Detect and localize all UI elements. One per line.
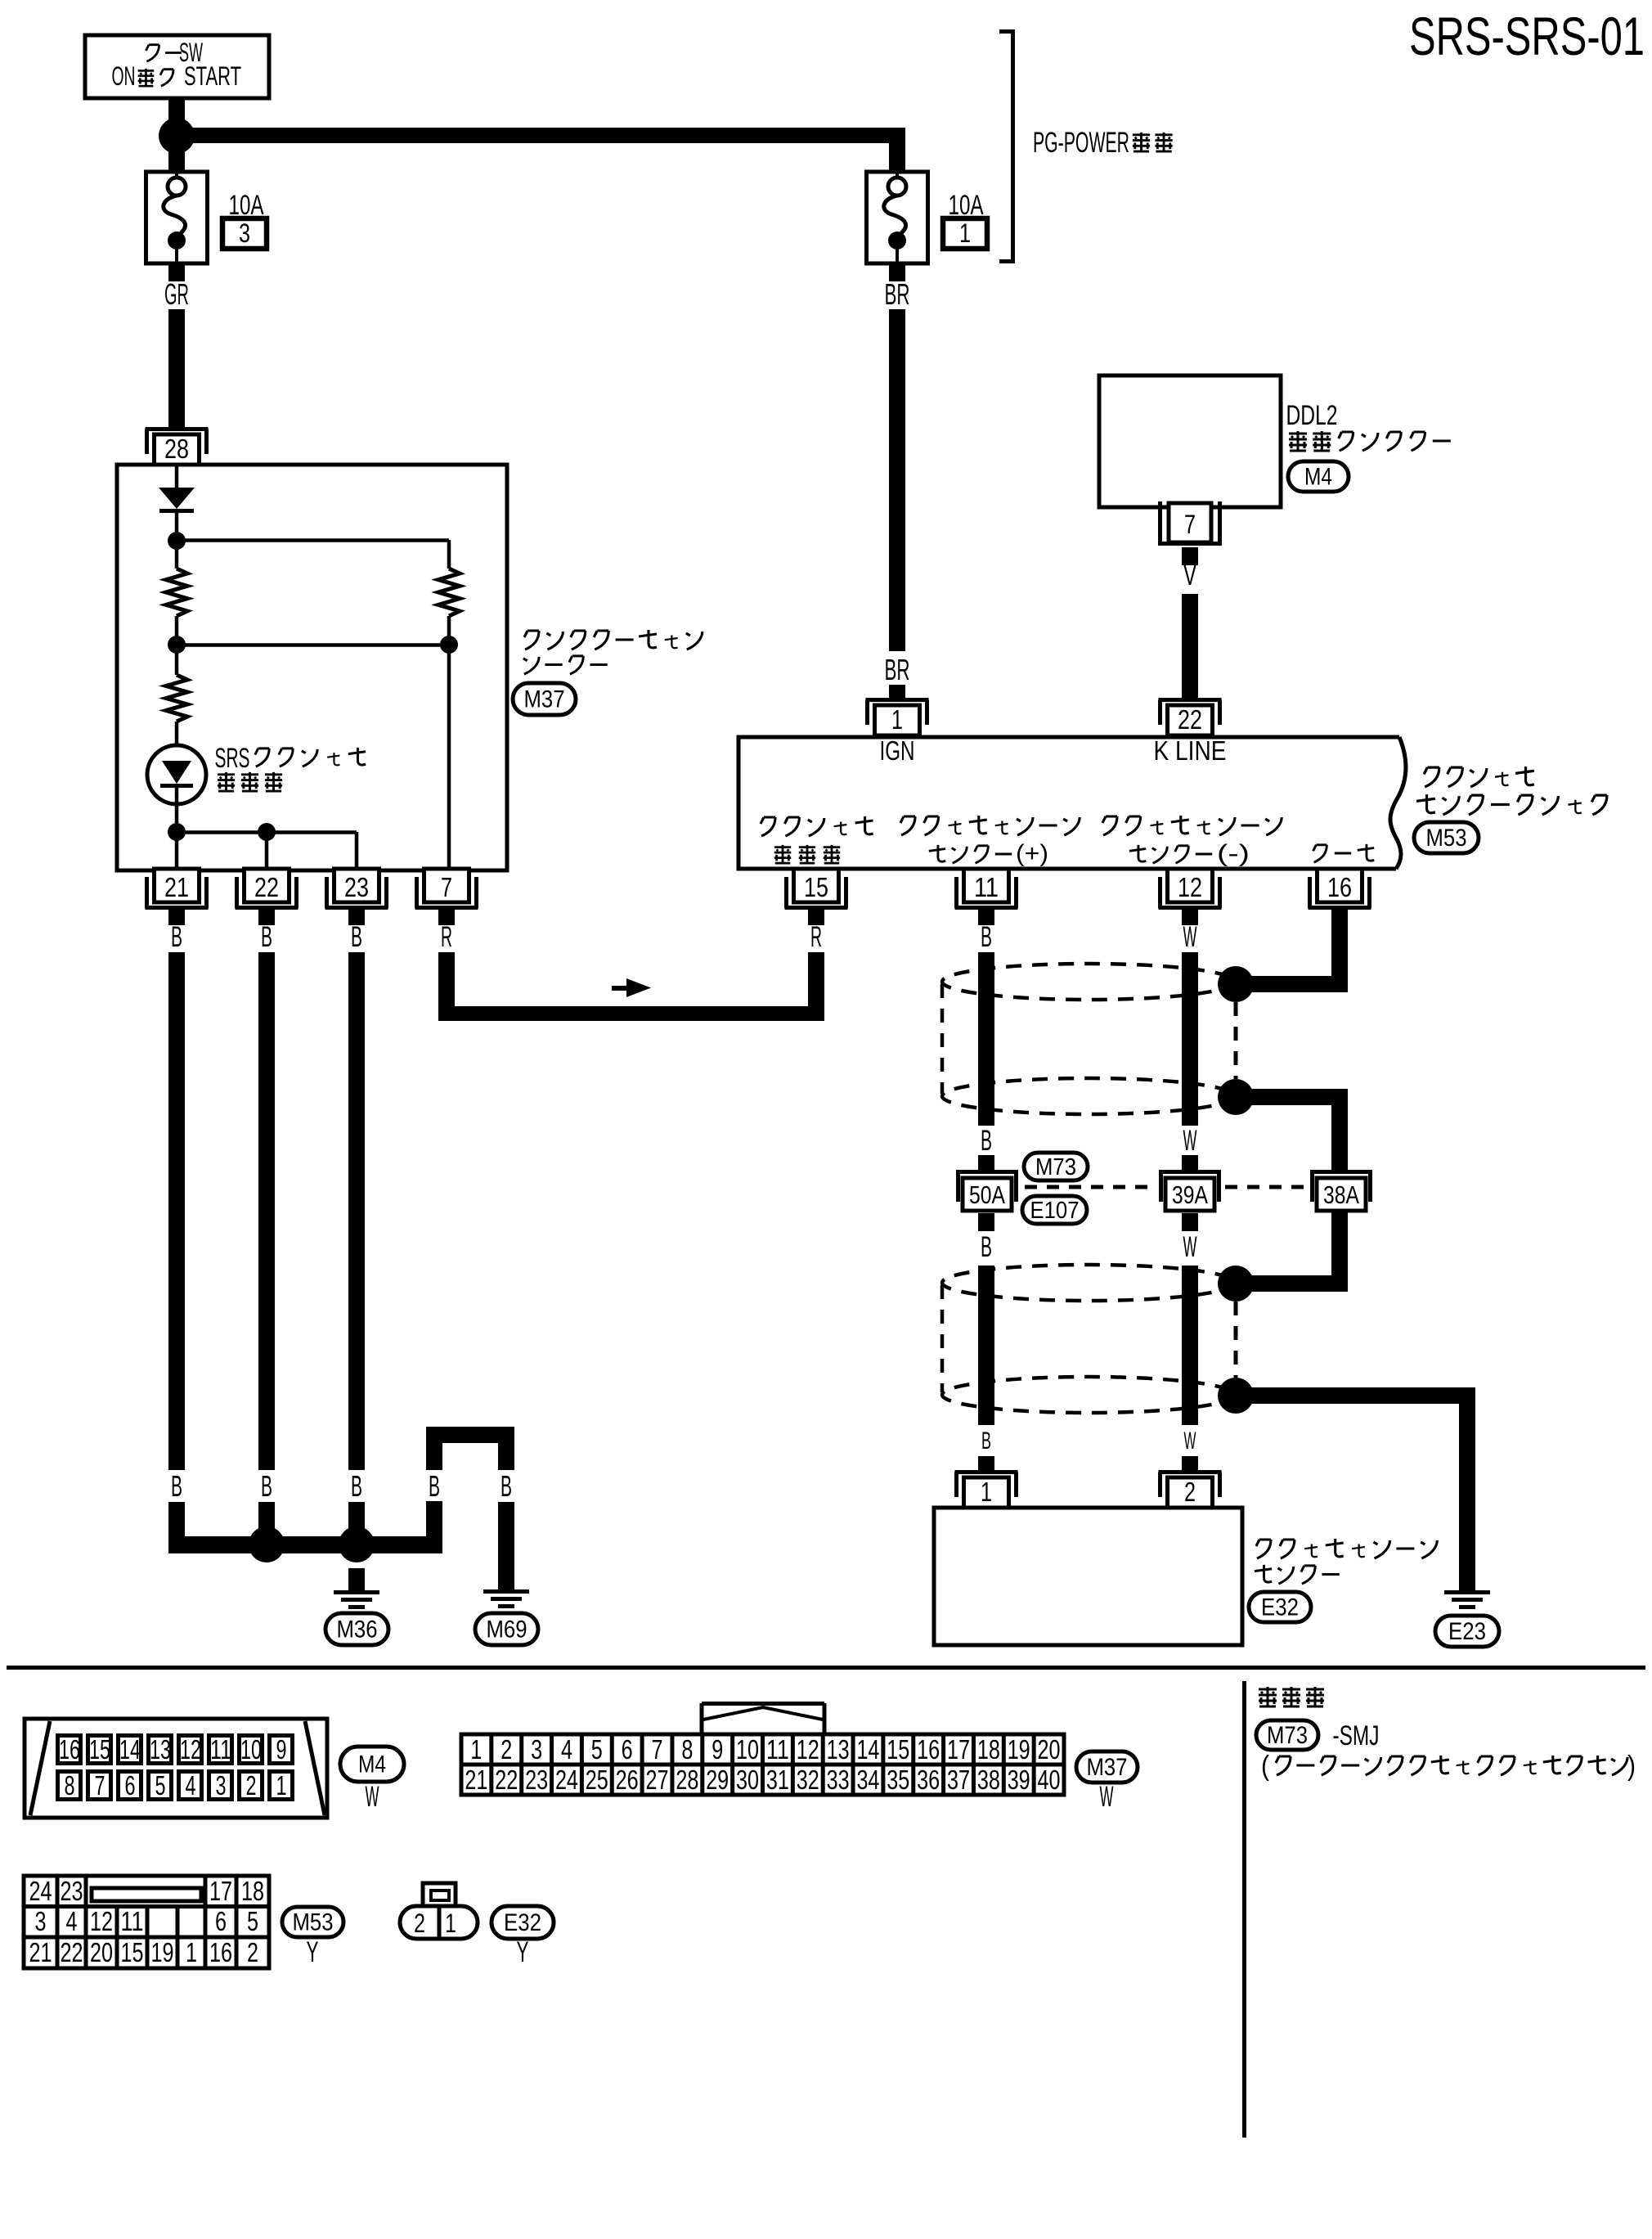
svg-text:26: 26 bbox=[616, 1765, 639, 1795]
svg-text:W: W bbox=[1183, 921, 1197, 953]
connector pin 15 below sensor unit bbox=[794, 869, 839, 902]
svg-text:(: ( bbox=[1261, 1751, 1270, 1782]
svg-text:M53: M53 bbox=[1426, 825, 1467, 852]
svg-text:11: 11 bbox=[121, 1906, 144, 1936]
svg-text:14: 14 bbox=[856, 1734, 879, 1765]
svg-text:19: 19 bbox=[151, 1937, 174, 1967]
wire GR down to meter pin 28 bbox=[168, 309, 185, 427]
shield drain dashed link 1 bbox=[1234, 1002, 1238, 1079]
label クラッシュゾーン above pin 12 bbox=[1102, 816, 1117, 835]
R wire up into pin 15 bbox=[808, 952, 824, 1021]
svg-text:14: 14 bbox=[119, 1734, 141, 1765]
connector pin 2 into crash zone sensor bbox=[1159, 1470, 1222, 1474]
wire V down to K LINE bbox=[1182, 594, 1198, 698]
oval M36 ref bbox=[325, 1613, 388, 1645]
svg-text:2: 2 bbox=[501, 1734, 512, 1765]
direction arrow bbox=[612, 986, 626, 991]
svg-text:12: 12 bbox=[180, 1734, 201, 1765]
wire right branch down to pin 7 bbox=[447, 645, 451, 869]
svg-text:21: 21 bbox=[29, 1937, 52, 1967]
connector pin 7 below DDL2 bbox=[1158, 501, 1162, 546]
svg-text:18: 18 bbox=[977, 1734, 1000, 1765]
svg-text:E32: E32 bbox=[1261, 1594, 1299, 1621]
label センサー(+) above pin 11 bbox=[929, 845, 945, 861]
svg-text:3: 3 bbox=[216, 1770, 227, 1801]
fuse 2 (10A, No.1) bbox=[867, 172, 928, 263]
svg-text:7: 7 bbox=[441, 872, 452, 902]
svg-text:B: B bbox=[261, 921, 272, 953]
svg-text:B: B bbox=[981, 1125, 992, 1157]
svg-text:38A: 38A bbox=[1323, 1180, 1359, 1209]
W wire seg2 bbox=[1182, 1266, 1198, 1425]
svg-text:40: 40 bbox=[1038, 1765, 1061, 1795]
svg-text:M37: M37 bbox=[1087, 1754, 1128, 1781]
svg-text:M73: M73 bbox=[1035, 1154, 1076, 1180]
svg-text:24: 24 bbox=[555, 1765, 578, 1795]
wire from key switch to junction bbox=[168, 98, 185, 129]
jog from 38A column to shield node 3 bbox=[1236, 1275, 1348, 1292]
label センサーユニット right of sensor unit bbox=[1416, 794, 1435, 813]
svg-text:20: 20 bbox=[1038, 1734, 1061, 1765]
svg-text:B: B bbox=[981, 1231, 992, 1263]
PG-POWER reference bracket bbox=[999, 29, 1013, 34]
W wire 39A stub bbox=[1182, 1213, 1198, 1231]
svg-text:B: B bbox=[501, 1469, 512, 1503]
svg-text:4: 4 bbox=[66, 1906, 78, 1936]
connector pin 22 (K LINE) into airbag sensor unit bbox=[1159, 698, 1222, 702]
svg-text:B: B bbox=[171, 921, 182, 953]
svg-text:50A: 50A bbox=[969, 1180, 1005, 1209]
W wire stub into pin 2 bbox=[1182, 1456, 1198, 1470]
svg-text:17: 17 bbox=[209, 1876, 232, 1906]
svg-text:SRS: SRS bbox=[215, 743, 250, 774]
wire bottom inside meter bbox=[177, 830, 357, 834]
svg-text:11: 11 bbox=[974, 872, 999, 902]
svg-text:39A: 39A bbox=[1172, 1180, 1208, 1209]
connector view E32 tab bbox=[423, 1883, 456, 1906]
R wire from meter pin 7 down bbox=[438, 952, 455, 1021]
B wire from pin22 long run bbox=[258, 952, 275, 1470]
svg-text:21: 21 bbox=[465, 1765, 487, 1795]
shield cylinder 1 left side bbox=[940, 984, 945, 1094]
label 診断コネクター bbox=[1289, 431, 1307, 451]
svg-text:W: W bbox=[1184, 1427, 1196, 1454]
svg-text:34: 34 bbox=[856, 1765, 879, 1795]
fuse 1 (10A, No.3) bbox=[146, 172, 208, 263]
wire BR stub to pin 1 bbox=[889, 685, 905, 701]
oval E107 ref bbox=[1022, 1196, 1087, 1224]
label 警告灯 above pin 15 bbox=[774, 845, 791, 863]
svg-text:K LINE: K LINE bbox=[1154, 735, 1227, 766]
svg-text:V: V bbox=[1183, 558, 1196, 591]
oval E32 ref (diagram) bbox=[1249, 1592, 1311, 1622]
svg-text:8: 8 bbox=[65, 1770, 75, 1801]
svg-text:M69: M69 bbox=[487, 1616, 527, 1643]
connector view M4 pin grid bbox=[58, 1736, 81, 1764]
resistor left upper bbox=[166, 569, 187, 616]
shield cylinder 2 left side bbox=[940, 1285, 945, 1392]
shield cylinder 2 bottom ellipse bbox=[942, 1377, 1235, 1413]
svg-text:9: 9 bbox=[276, 1734, 287, 1765]
svg-text:11: 11 bbox=[210, 1734, 231, 1765]
svg-text:35: 35 bbox=[887, 1765, 909, 1795]
svg-text:1: 1 bbox=[276, 1770, 287, 1801]
resistor right bbox=[438, 569, 460, 616]
svg-text:25: 25 bbox=[586, 1765, 608, 1795]
connector pin 1 (IGN) into airbag sensor unit bbox=[866, 698, 929, 702]
svg-text:10: 10 bbox=[240, 1734, 262, 1765]
junction node bottom mid bbox=[258, 823, 276, 841]
svg-text:6: 6 bbox=[622, 1734, 633, 1765]
svg-text:BR: BR bbox=[885, 277, 910, 311]
svg-text:22: 22 bbox=[61, 1937, 83, 1967]
svg-text:B: B bbox=[981, 921, 992, 953]
oval M53 ref (view) bbox=[282, 1907, 343, 1937]
DDL2 diagnostic connector box bbox=[1099, 375, 1281, 507]
svg-text:2: 2 bbox=[247, 1937, 258, 1967]
svg-text:2: 2 bbox=[246, 1770, 257, 1801]
svg-text:E107: E107 bbox=[1030, 1198, 1080, 1224]
W wire pin12 seg1 bbox=[1182, 952, 1198, 1126]
svg-text:15: 15 bbox=[804, 872, 828, 902]
svg-text:20: 20 bbox=[90, 1937, 113, 1967]
resistor left lower bbox=[175, 645, 179, 675]
svg-text:B: B bbox=[351, 921, 362, 953]
bus junction node 1 bbox=[249, 1526, 285, 1562]
label クラッシュゾーン (crash zone sensor) bbox=[1256, 1540, 1271, 1558]
SRS warning lamp LED bbox=[175, 722, 179, 761]
svg-text:5: 5 bbox=[591, 1734, 603, 1765]
svg-text:GR: GR bbox=[164, 277, 189, 311]
shield node 2 bbox=[1218, 1079, 1254, 1115]
label センサー(-) above pin 12 bbox=[1129, 845, 1146, 861]
svg-text:3: 3 bbox=[239, 218, 250, 248]
jog from node 2 to 38A column bbox=[1236, 1089, 1348, 1105]
connector pin 11 below sensor unit bbox=[964, 869, 1009, 902]
junction node below diode bbox=[168, 532, 186, 550]
svg-text:B: B bbox=[429, 1469, 440, 1503]
ground symbol E23 bbox=[1444, 1590, 1490, 1594]
shield cylinder 2 top ellipse bbox=[942, 1265, 1235, 1301]
svg-text:M53: M53 bbox=[293, 1909, 334, 1936]
B wire from pin21 long run bbox=[168, 952, 185, 1470]
svg-text:M36: M36 bbox=[337, 1616, 378, 1643]
fuse 2 output stub bbox=[889, 263, 905, 281]
connector pin 16 below sensor unit bbox=[1318, 869, 1362, 902]
svg-text:1: 1 bbox=[470, 1734, 482, 1765]
svg-text:START: START bbox=[184, 61, 241, 91]
svg-text:M4: M4 bbox=[358, 1751, 386, 1778]
svg-text:M4: M4 bbox=[1304, 464, 1332, 491]
connector pin 7 below meter bbox=[424, 869, 469, 902]
main horizontal power wire bbox=[177, 128, 905, 143]
svg-text:W: W bbox=[1100, 1781, 1114, 1813]
svg-text:PG-POWER: PG-POWER bbox=[1033, 127, 1129, 159]
svg-text:33: 33 bbox=[827, 1765, 850, 1795]
38A lower wire bbox=[1331, 1211, 1348, 1292]
svg-text:28: 28 bbox=[164, 434, 189, 464]
svg-text:2: 2 bbox=[414, 1909, 425, 1938]
svg-text:23: 23 bbox=[525, 1765, 548, 1795]
shield node 1 bbox=[1218, 966, 1254, 1002]
svg-text:ON: ON bbox=[112, 61, 136, 91]
B wire into 50A bbox=[978, 1155, 994, 1170]
svg-text:28: 28 bbox=[676, 1765, 698, 1795]
wire stub below pin 7 bbox=[1182, 547, 1198, 565]
oval M4 ref bbox=[1288, 461, 1349, 492]
oval M73 ref (bottom) bbox=[1256, 1720, 1318, 1750]
connector view M53 blade slot bbox=[92, 1888, 201, 1901]
oval M73 ref bbox=[1024, 1153, 1088, 1180]
svg-text:1: 1 bbox=[959, 218, 971, 248]
svg-text:W: W bbox=[366, 1781, 379, 1813]
wire stub junction to fuse 1 bbox=[168, 143, 185, 173]
svg-text:24: 24 bbox=[29, 1876, 52, 1906]
loop drop column to M69 bbox=[498, 1443, 514, 1470]
svg-text:1: 1 bbox=[445, 1909, 456, 1938]
svg-text:23: 23 bbox=[344, 872, 369, 902]
B wire pin11 seg1 bbox=[978, 952, 994, 1126]
label センサー (crash zone sensor) bbox=[1255, 1565, 1272, 1582]
label 警告灯 bbox=[218, 772, 235, 791]
svg-text:E23: E23 bbox=[1448, 1618, 1486, 1645]
connector pin 12 below sensor unit bbox=[1168, 869, 1213, 902]
svg-text:13: 13 bbox=[827, 1734, 850, 1765]
svg-text:B: B bbox=[981, 1427, 991, 1454]
wire from bus node to M36 bbox=[348, 1568, 365, 1590]
svg-text:9: 9 bbox=[712, 1734, 723, 1765]
shield node 3 bbox=[1218, 1266, 1254, 1302]
oval M37 ref (view) bbox=[1076, 1751, 1138, 1783]
svg-text:R: R bbox=[810, 921, 822, 953]
svg-text:): ) bbox=[1627, 1751, 1636, 1782]
svg-text:1: 1 bbox=[186, 1937, 197, 1967]
dashed link 50A-39A bbox=[1025, 1185, 1155, 1189]
B wire from pin23 long run bbox=[348, 952, 365, 1470]
wire corner down to fuse 2 bbox=[889, 128, 905, 173]
wire from shield node 4 to ground E23 bbox=[1236, 1387, 1475, 1404]
svg-text:39: 39 bbox=[1008, 1765, 1030, 1795]
wire BR down bbox=[889, 309, 905, 651]
ground symbol M36 bbox=[334, 1590, 379, 1594]
svg-text:B: B bbox=[351, 1469, 362, 1503]
svg-text:Y: Y bbox=[517, 1936, 529, 1968]
svg-text:4: 4 bbox=[561, 1734, 572, 1765]
oval E32 ref (view) bbox=[492, 1906, 554, 1939]
svg-text:Y: Y bbox=[307, 1936, 319, 1968]
svg-text:-SMJ: -SMJ bbox=[1333, 1720, 1380, 1751]
svg-text:5: 5 bbox=[247, 1906, 258, 1936]
combination meter box M37 bbox=[117, 465, 507, 870]
svg-text:12: 12 bbox=[90, 1906, 113, 1936]
label エアバッグ right of sensor unit bbox=[1424, 767, 1439, 787]
key switch box (キーSW ON又はSTART) bbox=[85, 35, 269, 98]
svg-text:18: 18 bbox=[241, 1876, 264, 1906]
label コンビネーション bbox=[524, 631, 539, 650]
connector view M37 pin grid bbox=[461, 1734, 1064, 1795]
oval M4 ref (view) bbox=[340, 1747, 404, 1782]
svg-text:W: W bbox=[1183, 1125, 1197, 1157]
svg-text:22: 22 bbox=[495, 1765, 518, 1795]
svg-text:22: 22 bbox=[1178, 704, 1202, 735]
svg-text:21: 21 bbox=[164, 872, 189, 902]
shield drain dashed link 2 bbox=[1234, 1302, 1238, 1378]
svg-text:15: 15 bbox=[887, 1734, 909, 1765]
B wire 50A stub bbox=[978, 1213, 994, 1231]
label アース above pin 16 bbox=[1313, 845, 1327, 862]
vertical divider line bbox=[1242, 1681, 1246, 2138]
connector pin 23 below meter bbox=[334, 869, 379, 902]
label 参照先 bbox=[1259, 1687, 1277, 1706]
svg-text:12: 12 bbox=[797, 1734, 819, 1765]
R wire horizontal run bbox=[438, 1006, 824, 1021]
ground symbol M69 bbox=[483, 1589, 529, 1594]
svg-text:32: 32 bbox=[797, 1765, 819, 1795]
svg-text:16: 16 bbox=[917, 1734, 940, 1765]
svg-text:16: 16 bbox=[209, 1937, 232, 1967]
connector pin 21 below meter bbox=[155, 869, 200, 902]
svg-text:38: 38 bbox=[977, 1765, 1000, 1795]
wire across top of resistors bbox=[177, 538, 449, 542]
oval M69 ref bbox=[475, 1613, 538, 1645]
svg-text:(-): (-) bbox=[1217, 840, 1250, 867]
svg-text:6: 6 bbox=[215, 1906, 227, 1936]
oval E23 ref bbox=[1435, 1616, 1499, 1647]
svg-text:6: 6 bbox=[125, 1770, 136, 1801]
svg-text:30: 30 bbox=[736, 1765, 759, 1795]
label エアバッグ above pin 15 bbox=[761, 817, 775, 836]
fuse 2 number box 1 bbox=[943, 218, 987, 249]
connector pin 22 below meter bbox=[245, 869, 290, 902]
svg-text:15: 15 bbox=[121, 1937, 144, 1967]
ground wire from pin 16 bbox=[1331, 910, 1348, 992]
B wire stub into pin 1 bbox=[978, 1456, 994, 1470]
svg-text:SRS-SRS-01: SRS-SRS-01 bbox=[1409, 6, 1645, 66]
svg-text:13: 13 bbox=[150, 1734, 171, 1765]
svg-text:11: 11 bbox=[766, 1734, 789, 1765]
junction node right mid bbox=[440, 636, 458, 654]
B wire stubs to ground bus bbox=[168, 1502, 185, 1553]
svg-text:E32: E32 bbox=[504, 1909, 541, 1936]
connector pin 1 into crash zone sensor bbox=[955, 1470, 1018, 1474]
svg-text:(+): (+) bbox=[1016, 840, 1048, 867]
shield node 4 bbox=[1218, 1378, 1254, 1414]
svg-text:DDL2: DDL2 bbox=[1286, 400, 1338, 431]
svg-text:1: 1 bbox=[981, 1477, 992, 1507]
wire between mid nodes bbox=[177, 643, 449, 647]
svg-text:23: 23 bbox=[61, 1876, 83, 1906]
svg-text:27: 27 bbox=[646, 1765, 669, 1795]
svg-text:3: 3 bbox=[531, 1734, 542, 1765]
svg-text:W: W bbox=[1183, 1231, 1197, 1263]
svg-text:IGN: IGN bbox=[880, 735, 915, 766]
svg-text:16: 16 bbox=[1327, 872, 1352, 902]
svg-text:10: 10 bbox=[736, 1734, 759, 1765]
crash zone sensor box E32 bbox=[934, 1508, 1242, 1645]
connector view M4 outline bbox=[25, 1719, 327, 1818]
svg-text:19: 19 bbox=[1008, 1734, 1030, 1765]
connector view E32 body bbox=[400, 1906, 478, 1939]
inline connector 50A bbox=[956, 1170, 1018, 1174]
junction node left mid bbox=[168, 636, 186, 654]
shield cylinder 1 top ellipse bbox=[942, 964, 1235, 1000]
svg-text:2: 2 bbox=[1184, 1477, 1196, 1507]
svg-text:7: 7 bbox=[95, 1770, 105, 1801]
svg-text:31: 31 bbox=[766, 1765, 789, 1795]
svg-text:M37: M37 bbox=[524, 686, 565, 713]
loop top bar bbox=[426, 1427, 514, 1443]
inline connector 38A bbox=[1310, 1170, 1372, 1174]
connector view M53 grid bbox=[24, 1876, 269, 1968]
shield cylinder 1 bottom ellipse bbox=[942, 1078, 1235, 1114]
junction node at top bbox=[159, 118, 195, 154]
svg-text:17: 17 bbox=[947, 1734, 970, 1765]
svg-text:7: 7 bbox=[652, 1734, 663, 1765]
svg-text:29: 29 bbox=[706, 1765, 729, 1795]
fuse 1 output stub bbox=[168, 263, 185, 281]
svg-text:5: 5 bbox=[155, 1770, 166, 1801]
svg-text:15: 15 bbox=[89, 1734, 110, 1765]
junction node bottom left bbox=[168, 823, 186, 841]
W wire into 39A bbox=[1182, 1155, 1198, 1170]
svg-text:4: 4 bbox=[186, 1770, 196, 1801]
label クラッシュゾーン above pin 11 bbox=[900, 816, 915, 835]
svg-text:8: 8 bbox=[681, 1734, 693, 1765]
ground bus horizontal bbox=[168, 1536, 442, 1553]
svg-text:BR: BR bbox=[885, 653, 910, 686]
label メーター bbox=[523, 657, 539, 674]
svg-text:36: 36 bbox=[917, 1765, 940, 1795]
jog from pin16 wire to shield node 1 bbox=[1236, 976, 1348, 992]
svg-text:12: 12 bbox=[1178, 872, 1202, 902]
B wire seg2 bbox=[978, 1266, 994, 1425]
fuse 1 number box 3 bbox=[222, 218, 267, 249]
horizontal separator line bbox=[7, 1666, 1645, 1670]
svg-text:37: 37 bbox=[947, 1765, 970, 1795]
svg-text:M73: M73 bbox=[1267, 1722, 1308, 1749]
svg-text:7: 7 bbox=[1184, 510, 1196, 539]
airbag sensor unit box M53 (torn right edge) bbox=[738, 737, 1399, 869]
diode inside meter bbox=[175, 466, 179, 488]
connector view M37 tab bbox=[702, 1702, 824, 1706]
svg-text:R: R bbox=[441, 921, 452, 953]
oval M37 ref bbox=[513, 683, 576, 715]
oval M53 ref bbox=[1414, 822, 1479, 853]
svg-text:16: 16 bbox=[59, 1734, 80, 1765]
bus junction node 2 bbox=[339, 1526, 375, 1562]
svg-text:B: B bbox=[261, 1469, 272, 1503]
connector pin 28 into combination meter bbox=[146, 427, 209, 431]
inline connector 39A bbox=[1159, 1170, 1221, 1174]
dashed link 39A-38A bbox=[1225, 1185, 1306, 1189]
loop riser column bbox=[426, 1501, 442, 1553]
svg-text:B: B bbox=[171, 1469, 182, 1503]
svg-text:3: 3 bbox=[35, 1906, 47, 1936]
svg-text:22: 22 bbox=[254, 872, 279, 902]
svg-text:1: 1 bbox=[891, 704, 903, 735]
